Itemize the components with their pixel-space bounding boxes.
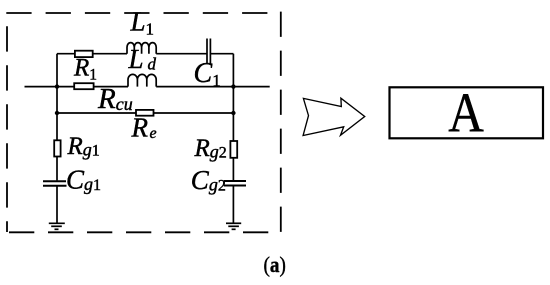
svg-text:(a): (a) [264, 254, 286, 277]
svg-text:Rg1: Rg1 [67, 133, 100, 160]
svg-text:L1: L1 [130, 6, 155, 38]
svg-text:Ld: Ld [128, 44, 157, 74]
svg-text:Re: Re [131, 113, 157, 143]
svg-text:C1: C1 [194, 58, 221, 90]
svg-text:Rcu: Rcu [97, 83, 133, 115]
svg-text:R1: R1 [73, 54, 97, 83]
svg-text:Rg2: Rg2 [194, 135, 227, 162]
svg-text:Cg1: Cg1 [66, 165, 101, 195]
svg-text:Cg2: Cg2 [191, 165, 226, 195]
svg-text:A: A [448, 83, 484, 145]
